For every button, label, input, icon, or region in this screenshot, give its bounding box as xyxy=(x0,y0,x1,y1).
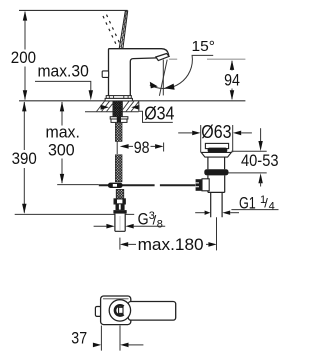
Ø34 right arrow xyxy=(131,105,139,110)
G1 1/4 leader arrow xyxy=(230,212,239,214)
15 degree vertical reference line xyxy=(162,60,164,96)
Ø34 left arrow xyxy=(101,105,109,110)
svg-text:200: 200 xyxy=(11,48,36,67)
top view: body inner top edge xyxy=(103,298,129,300)
40-53 top arrow shaft xyxy=(260,128,262,143)
G3/8 dimension line xyxy=(94,225,166,227)
braided hose middle section xyxy=(115,155,122,182)
svg-text:15°: 15° xyxy=(192,38,216,55)
braided hose lower section xyxy=(116,189,124,199)
lever handle (solid position) xyxy=(119,11,128,49)
15 degree arc arrowhead right xyxy=(164,84,175,90)
94 bottom arrow xyxy=(230,90,234,100)
98 right extension tick xyxy=(163,143,165,152)
Ø63 right arrow xyxy=(233,131,241,136)
braided hose upper section xyxy=(115,122,122,141)
G3/8 left arrow xyxy=(106,224,114,229)
drain upper body xyxy=(208,157,225,169)
max.180 left arrow xyxy=(120,242,128,247)
svg-text:390: 390 xyxy=(12,149,37,168)
hose fitting hex xyxy=(116,204,125,210)
dimension 200 vertical line xyxy=(24,12,26,100)
lever mid line xyxy=(121,11,126,49)
deck cross-section bottom line xyxy=(85,111,139,113)
mounting nut xyxy=(111,119,127,122)
Ø63 left arrow xyxy=(192,131,200,136)
dimension 390 top arrow xyxy=(22,101,26,111)
max.180 right arrow xyxy=(208,242,216,247)
98 right arrow xyxy=(155,144,163,149)
deck hatching right block xyxy=(123,101,139,111)
37 right arrow xyxy=(120,343,128,348)
deck hatching left block xyxy=(97,101,113,111)
rod through nut xyxy=(117,117,121,123)
drain centerline extension xyxy=(216,217,218,250)
connector tube G3/8 xyxy=(115,214,125,232)
deck (countertop) line xyxy=(19,100,245,102)
max.300 bottom reference line xyxy=(57,184,99,186)
svg-text:37: 37 xyxy=(71,328,87,347)
390 bottom reference line xyxy=(15,213,135,215)
dimension 98 line xyxy=(129,145,156,147)
base plate ticks xyxy=(109,96,128,99)
max.180 left extension tick xyxy=(119,238,121,250)
max.300 bottom arrow xyxy=(60,174,64,184)
drain lower body xyxy=(208,175,225,192)
hose fitting flange xyxy=(113,210,126,214)
max.300 top arrow xyxy=(60,101,64,111)
40-53 extension lines xyxy=(229,151,267,173)
dimension 200 bottom arrow xyxy=(23,90,27,100)
drain seal ring xyxy=(204,169,228,175)
Ø34 leader xyxy=(139,101,173,123)
hose fitting collar xyxy=(114,199,125,204)
dimension 390 bottom arrow xyxy=(22,204,26,214)
label G3/8 xyxy=(138,210,163,230)
top reference line (lever top level) xyxy=(19,9,128,11)
40-53 bottom arrow xyxy=(258,173,262,183)
15 degree arc arrowhead left xyxy=(150,82,158,89)
svg-text:300: 300 xyxy=(48,140,75,159)
svg-text:max.: max. xyxy=(45,122,80,141)
dimension 390 vertical line xyxy=(23,102,25,213)
Ø63 dimension line left xyxy=(178,132,192,134)
pop-up linkage rod xyxy=(99,184,196,186)
svg-text:max.30: max.30 xyxy=(38,61,89,80)
drain tailpipe xyxy=(211,192,222,217)
37 left arrow xyxy=(93,343,101,348)
Ø63 extension lines xyxy=(201,125,233,152)
temperature limiter tab on body left xyxy=(102,71,108,78)
top view: handle square knob xyxy=(119,307,123,313)
dimension max.300 vertical line xyxy=(61,102,63,183)
linkage ball joint xyxy=(108,183,123,188)
aerator (tilted outlet) xyxy=(156,54,169,61)
svg-text:8: 8 xyxy=(157,218,163,230)
svg-text:40-53: 40-53 xyxy=(241,151,279,170)
svg-text:Ø34: Ø34 xyxy=(144,104,174,124)
37 dimension line right xyxy=(129,344,144,346)
base plate upper xyxy=(106,96,131,99)
dimension 94 vertical line xyxy=(231,61,233,99)
svg-text:94: 94 xyxy=(224,70,240,89)
40-53 bottom arrow shaft xyxy=(260,181,262,187)
15 degree slanted stream line xyxy=(159,60,167,96)
threaded shank through deck xyxy=(113,101,123,117)
drain plug dark seal xyxy=(208,148,228,153)
top view: spout rectangle xyxy=(128,302,175,321)
max.180 dimension line xyxy=(128,243,208,245)
top view: handle G ring xyxy=(115,305,124,315)
G1 1/4 underline xyxy=(231,209,278,211)
top view: outlet tab left xyxy=(95,307,101,317)
svg-text:98: 98 xyxy=(134,138,150,157)
drain knurled adjuster knob xyxy=(196,179,202,191)
40-53 top arrow xyxy=(258,141,262,151)
98 left arrow xyxy=(120,144,129,149)
svg-text:4: 4 xyxy=(269,201,275,213)
15 degree arc xyxy=(150,55,213,88)
svg-text:max.180: max.180 xyxy=(138,235,204,254)
drain plug top xyxy=(205,143,228,148)
max.30 down arrow xyxy=(89,90,93,100)
svg-text:/: / xyxy=(264,196,268,211)
base plate lower xyxy=(105,98,132,101)
G1 1/4 left mark xyxy=(195,212,205,214)
faucet body outline xyxy=(109,49,169,96)
lever movement dashes (alternate position) xyxy=(103,16,117,46)
pull rod thin line xyxy=(116,141,118,154)
top view: body square xyxy=(101,296,131,325)
94 top arrow xyxy=(230,60,234,70)
top view: handle circle xyxy=(109,300,130,321)
37 extension lines xyxy=(101,326,120,351)
label G1 1/4 xyxy=(239,194,275,213)
G3/8 right arrow xyxy=(125,224,133,229)
mounting washer xyxy=(110,117,128,119)
svg-text:Ø63: Ø63 xyxy=(201,122,231,142)
gray aerator level extension lines xyxy=(169,58,246,60)
dimension 200 top arrow xyxy=(23,11,27,21)
drain flange xyxy=(201,152,231,157)
max.30 leader line xyxy=(35,81,91,91)
drain lever housing xyxy=(202,179,209,191)
Ø63 dimension line right xyxy=(241,132,252,134)
